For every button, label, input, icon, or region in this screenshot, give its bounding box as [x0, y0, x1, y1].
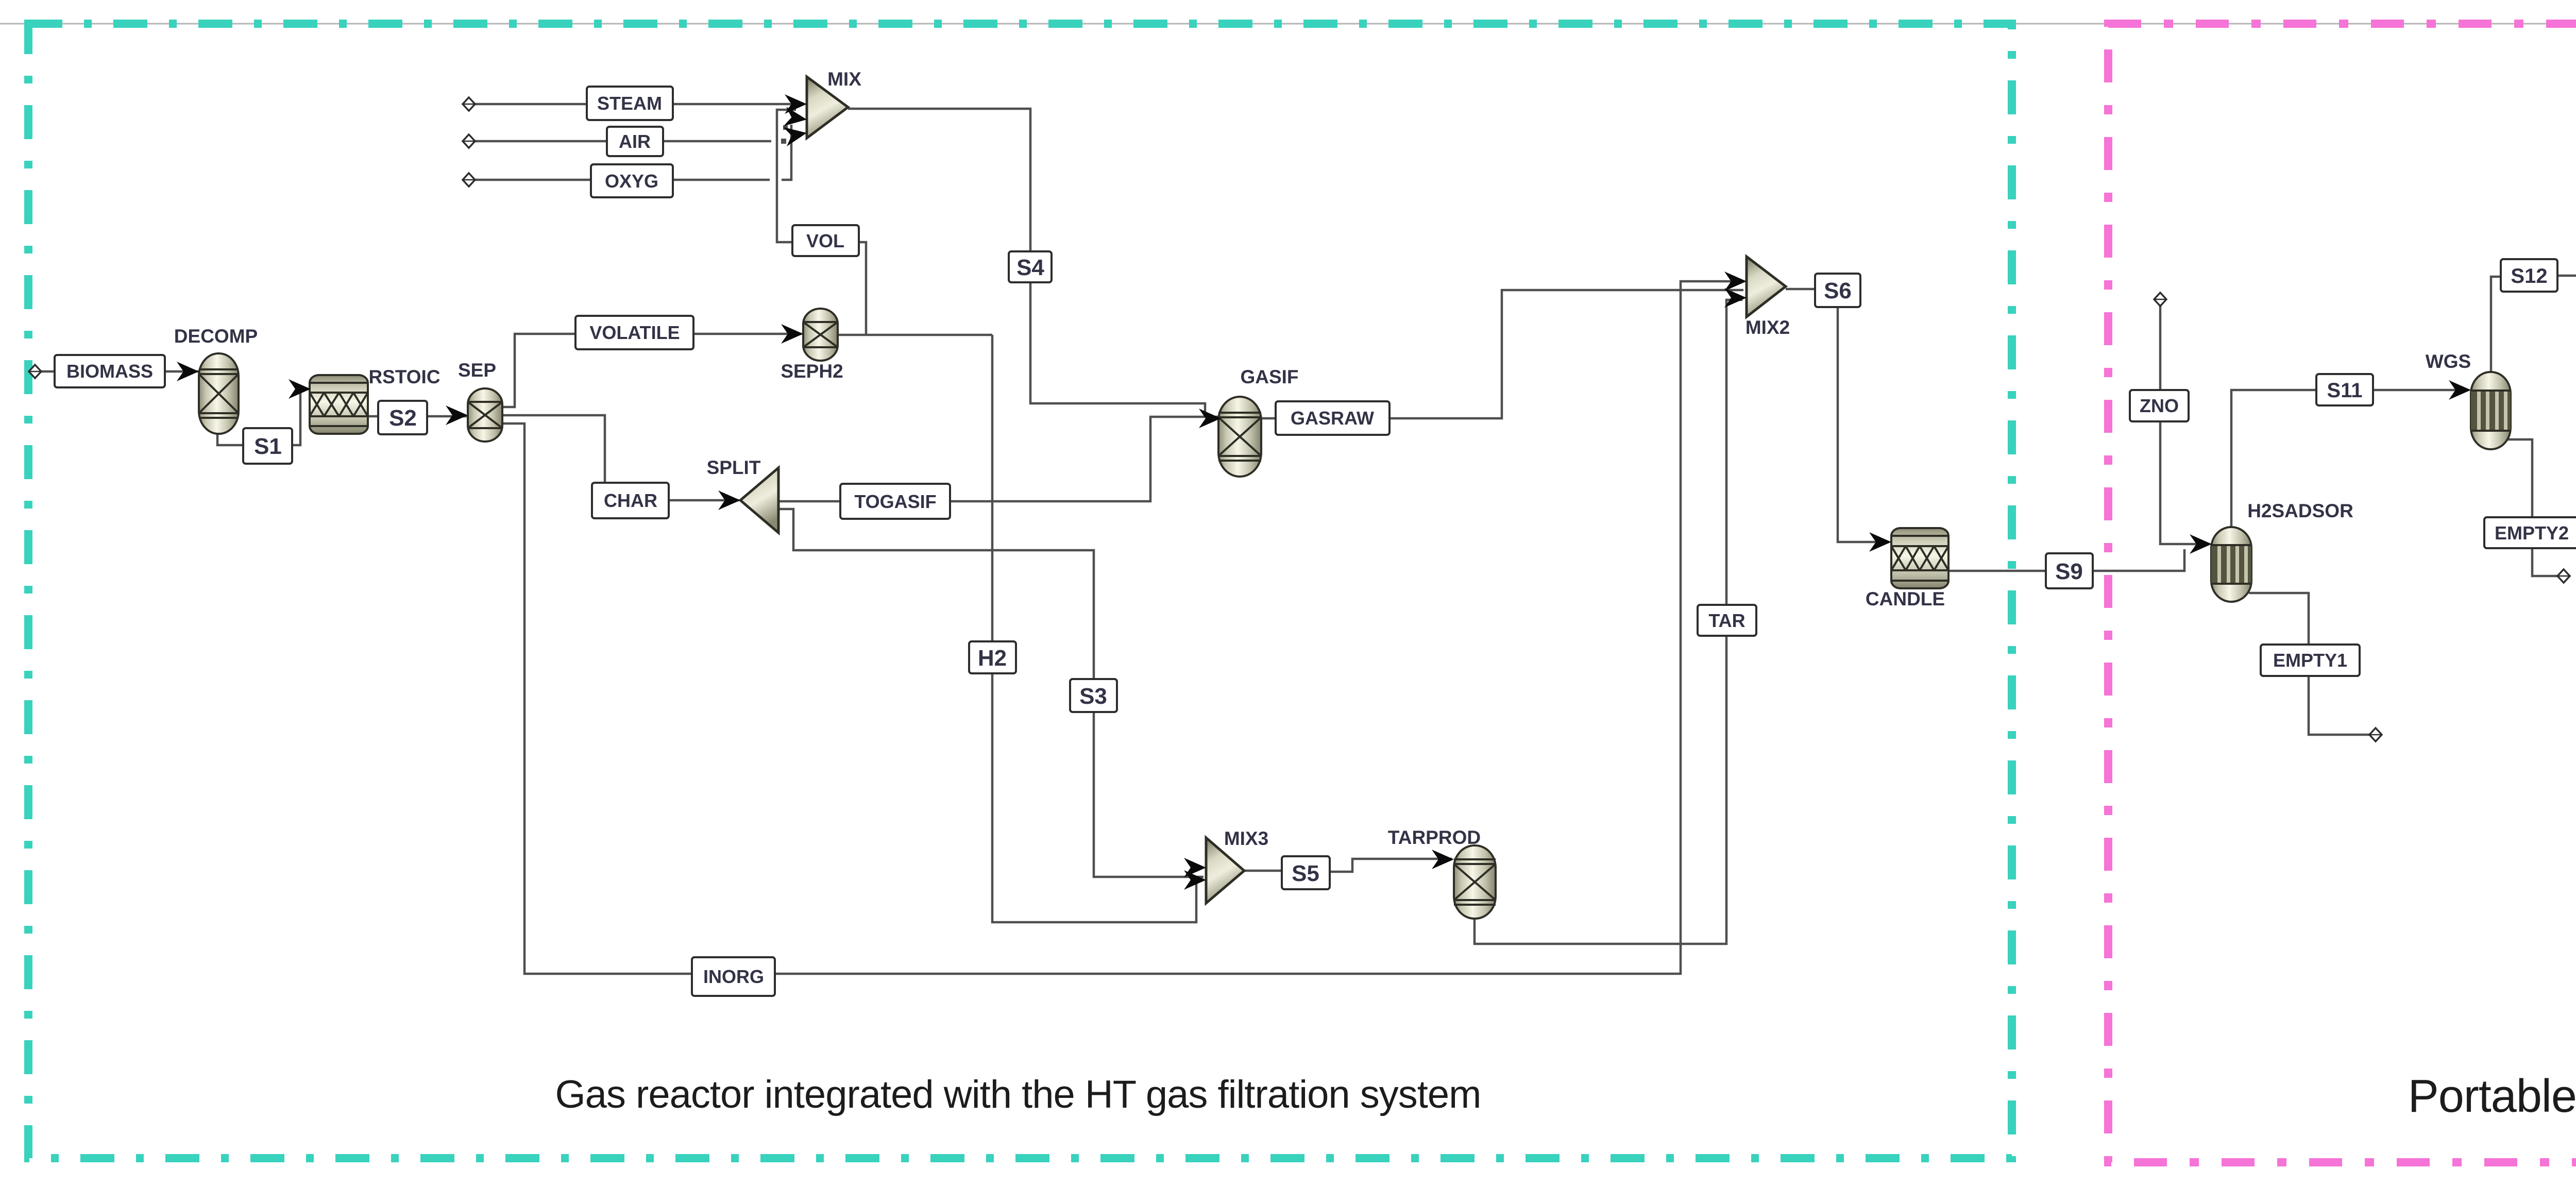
- svg-text:S1: S1: [254, 434, 282, 459]
- svg-text:CHAR: CHAR: [604, 490, 657, 511]
- svg-text:TARPROD: TARPROD: [1388, 827, 1481, 848]
- svg-text:INORG: INORG: [703, 966, 764, 987]
- svg-text:CANDLE: CANDLE: [1866, 588, 1945, 609]
- svg-text:OXYG: OXYG: [605, 171, 658, 192]
- svg-text:TAR: TAR: [1708, 610, 1745, 631]
- svg-text:S5: S5: [1292, 861, 1319, 886]
- svg-text:ZNO: ZNO: [2140, 395, 2179, 416]
- svg-text:H2SADSOR: H2SADSOR: [2247, 500, 2353, 521]
- svg-text:S4: S4: [1016, 255, 1044, 280]
- svg-text:VOL: VOL: [806, 230, 844, 251]
- svg-text:S2: S2: [389, 405, 417, 431]
- svg-text:S9: S9: [2055, 559, 2083, 584]
- svg-text:GASIF: GASIF: [1240, 366, 1298, 387]
- svg-text:Gas reactor integrated with th: Gas reactor integrated with the HT gas f…: [555, 1073, 1481, 1116]
- svg-text:RSTOIC: RSTOIC: [368, 366, 440, 387]
- svg-text:EMPTY2: EMPTY2: [2495, 522, 2569, 544]
- svg-text:TOGASIF: TOGASIF: [854, 491, 936, 512]
- svg-text:S12: S12: [2511, 265, 2547, 287]
- svg-text:H2: H2: [978, 646, 1007, 671]
- svg-text:MIX3: MIX3: [1224, 828, 1268, 849]
- svg-text:S11: S11: [2327, 379, 2363, 402]
- svg-text:GASRAW: GASRAW: [1291, 408, 1374, 429]
- svg-text:VOLATILE: VOLATILE: [589, 322, 680, 343]
- svg-text:STEAM: STEAM: [597, 93, 662, 114]
- svg-text:WGS: WGS: [2426, 351, 2471, 372]
- svg-text:S3: S3: [1079, 684, 1107, 709]
- svg-text:EMPTY1: EMPTY1: [2273, 650, 2347, 671]
- svg-text:MIX2: MIX2: [1745, 317, 1790, 338]
- svg-text:DECOMP: DECOMP: [174, 326, 258, 347]
- svg-text:MIX: MIX: [827, 69, 861, 90]
- svg-text:BIOMASS: BIOMASS: [66, 361, 153, 382]
- svg-text:S6: S6: [1824, 278, 1852, 303]
- svg-text:SPLIT: SPLIT: [707, 457, 761, 478]
- svg-text:SEP: SEP: [458, 360, 496, 381]
- svg-text:SEPH2: SEPH2: [781, 361, 843, 382]
- svg-text:Portable purification system (: Portable purification system (PPS): [2408, 1071, 2576, 1122]
- svg-text:AIR: AIR: [619, 131, 651, 152]
